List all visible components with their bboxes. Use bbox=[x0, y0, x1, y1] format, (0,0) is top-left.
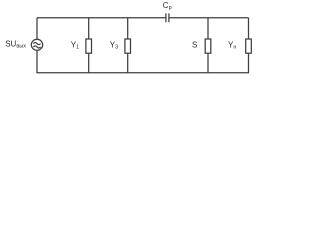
svg-text:S: S bbox=[192, 41, 197, 50]
